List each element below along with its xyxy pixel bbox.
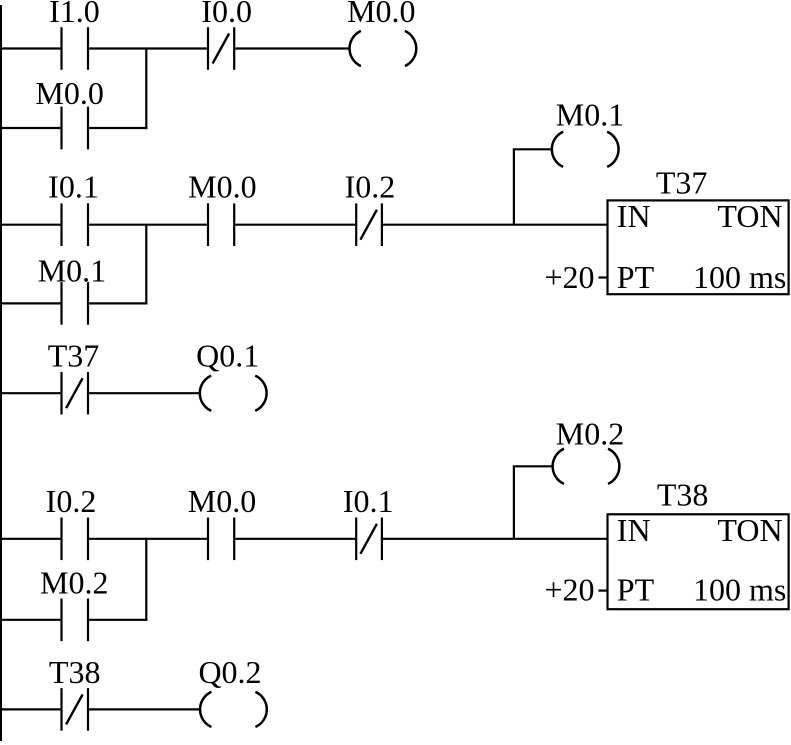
svg-text:I0.2: I0.2	[345, 169, 396, 205]
svg-text:T38: T38	[657, 477, 709, 513]
wire I0.2 to M0.0	[89, 538, 207, 540]
svg-text:M0.1: M0.1	[556, 97, 624, 133]
svg-text:PT: PT	[617, 572, 655, 608]
svg-text:TON: TON	[717, 512, 782, 548]
contact M0.0 (NO, rung4)	[188, 483, 256, 560]
coil Q0.2	[198, 654, 266, 727]
wire branch2 vertical	[145, 225, 147, 305]
wire I0.0 to coil M0.0	[235, 47, 349, 49]
wire rung2 rail to I0.1	[0, 224, 60, 226]
wire M0.0 contact to branch junction	[89, 127, 147, 129]
timer T38 box	[608, 477, 789, 610]
svg-text:M0.2: M0.2	[40, 565, 108, 601]
svg-text:I0.0: I0.0	[201, 0, 252, 29]
wire M0.1 coil branch vertical	[513, 149, 515, 224]
svg-text:100 ms: 100 ms	[693, 572, 786, 608]
svg-text:T37: T37	[656, 165, 708, 201]
wire M0.2 contact to branch junction	[89, 619, 147, 621]
contact I0.1 (NO)	[48, 169, 99, 246]
wire M0.1 coil branch horizontal	[513, 148, 552, 150]
wire branch2 rail to M0.1 contact	[0, 302, 60, 304]
wire branch1 rail to M0.0 contact	[0, 127, 60, 129]
svg-text:+20: +20	[545, 259, 595, 295]
wire M0.0 to I0.2	[235, 224, 355, 226]
contact T38 (NC)	[49, 654, 101, 731]
contact I0.0 (NC)	[201, 0, 252, 70]
svg-text:M0.0: M0.0	[188, 169, 256, 205]
wire I0.1 to timer T38	[383, 538, 608, 540]
svg-text:I1.0: I1.0	[49, 0, 100, 29]
svg-text:I0.2: I0.2	[46, 483, 97, 519]
wire I1.0 to I0.0	[89, 47, 207, 49]
wire M0.2 coil branch vertical	[513, 466, 515, 539]
wire branch4 rail to M0.2 contact	[0, 619, 60, 621]
svg-text:M0.0: M0.0	[35, 75, 103, 111]
svg-text:T37: T37	[48, 338, 100, 374]
coil Q0.1	[196, 338, 266, 411]
svg-text:M0.0: M0.0	[347, 0, 415, 29]
wire M0.0 to I0.1	[235, 538, 355, 540]
svg-text:Q0.1: Q0.1	[196, 338, 259, 374]
svg-text:IN: IN	[617, 512, 651, 548]
wire +20 dash to T38	[599, 589, 608, 591]
contact M0.0 (NO, parallel branch)	[35, 75, 103, 149]
svg-text:IN: IN	[617, 198, 651, 234]
contact M0.2 (NO, parallel branch)	[40, 565, 108, 642]
svg-text:I0.1: I0.1	[343, 483, 394, 519]
svg-text:M0.0: M0.0	[188, 483, 256, 519]
contact M0.1 (NO, parallel branch)	[38, 253, 106, 325]
wire branch1 vertical	[145, 49, 147, 130]
svg-text:M0.1: M0.1	[38, 253, 106, 289]
svg-text:100 ms: 100 ms	[693, 259, 786, 295]
svg-text:TON: TON	[717, 198, 782, 234]
wire T38 contact to coil Q0.2	[89, 708, 200, 710]
svg-text:I0.1: I0.1	[48, 169, 99, 205]
svg-text:PT: PT	[617, 259, 655, 295]
contact I0.1 (NC)	[343, 483, 394, 560]
contact M0.0 (NO, rung2)	[188, 169, 256, 246]
svg-text:T38: T38	[49, 654, 101, 690]
contact I1.0 (NO)	[49, 0, 100, 70]
coil M0.2	[553, 415, 625, 484]
wire rung1 rail to I1.0	[0, 47, 60, 49]
wire rung3 rail to T37 contact	[0, 392, 60, 394]
wire I0.1 to M0.0	[89, 224, 207, 226]
svg-text:Q0.2: Q0.2	[198, 654, 261, 690]
wire M0.1 contact to branch junction	[89, 302, 147, 304]
svg-text:M0.2: M0.2	[556, 415, 624, 451]
coil M0.1	[552, 97, 624, 167]
contact I0.2 (NO)	[46, 483, 97, 560]
contact I0.2 (NC)	[345, 169, 396, 246]
wire M0.2 coil branch horizontal	[513, 465, 553, 467]
timer T37 box	[608, 165, 789, 295]
wire rung5 rail to T38 contact	[0, 708, 60, 710]
svg-text:+20: +20	[545, 572, 595, 608]
wire T37 contact to coil Q0.1	[89, 392, 200, 394]
left power rail	[0, 5, 2, 741]
coil M0.0	[347, 0, 416, 66]
contact T37 (NC)	[48, 338, 100, 415]
wire branch4 vertical	[145, 539, 147, 621]
wire I0.2 to timer T37	[383, 224, 608, 226]
wire rung4 rail to I0.2	[0, 538, 60, 540]
wire +20 dash to T37	[599, 276, 608, 278]
